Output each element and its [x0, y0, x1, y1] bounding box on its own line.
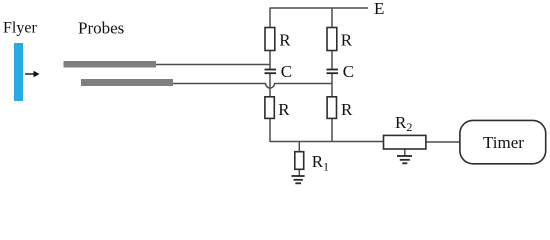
wire left branch: rail to R top — [269, 8, 271, 28]
svg-text:C: C — [281, 62, 292, 81]
svg-text:Probes: Probes — [78, 19, 124, 38]
resistor R top-left — [265, 28, 275, 51]
resistor R1 — [295, 152, 304, 170]
probe bottom (gray bar) — [81, 79, 173, 86]
svg-text:E: E — [374, 0, 384, 18]
resistor R bottom-left — [265, 97, 274, 119]
wire left branch: lower R bottom to bus — [269, 118, 271, 142]
ground below R1 — [292, 176, 305, 183]
resistor R2 — [384, 135, 426, 149]
wire top rail to E — [270, 7, 369, 9]
svg-text:Flyer: Flyer — [3, 20, 37, 37]
svg-text:R: R — [341, 100, 353, 119]
wire middle branch: C bottom to lower R top — [331, 73, 333, 97]
wire left branch: R bottom to C top — [269, 51, 271, 70]
svg-text:R: R — [278, 100, 290, 119]
resistor R top-right — [327, 28, 337, 51]
wire R2 to Timer — [426, 141, 460, 143]
wire R1 stem bottom to ground — [298, 169, 300, 176]
capacitor C right — [327, 70, 339, 74]
probe top (gray bar) — [64, 61, 157, 68]
wire bottom bus — [270, 141, 384, 143]
capacitor C left — [265, 70, 277, 74]
arrow (flyer motion) — [25, 71, 40, 77]
wire middle branch: rail to R top — [331, 8, 333, 28]
svg-text:R: R — [279, 31, 291, 50]
resistor R bottom-right — [327, 97, 336, 119]
wire R2 ground stem — [404, 149, 406, 156]
wire middle branch: lower R bottom to bus — [331, 118, 333, 142]
Timer box — [460, 120, 546, 163]
svg-text:C: C — [343, 62, 354, 81]
ground below R2 — [397, 156, 412, 163]
svg-text:R: R — [341, 31, 353, 50]
wire top probe to node A — [156, 64, 270, 66]
wire bottom probe to node B (with hop over left branch) — [173, 84, 332, 89]
wire left branch: C bottom to lower R top — [269, 73, 271, 97]
svg-text:Timer: Timer — [483, 133, 524, 152]
wire R1 stem top — [298, 142, 300, 152]
wire middle branch: R bottom to C top — [331, 51, 333, 70]
flyer plate (blue bar) — [14, 43, 23, 101]
